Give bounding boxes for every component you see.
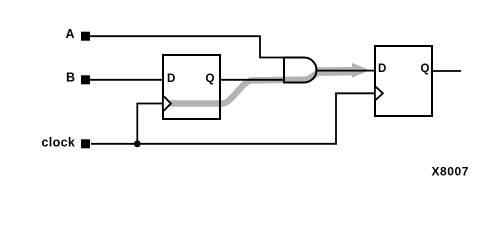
flip-flop U2 body fill <box>375 46 432 116</box>
svg-text:clock: clock <box>42 135 76 149</box>
terminal clock <box>81 139 90 148</box>
wire: AND gate output to U2 D input <box>316 70 376 72</box>
AND gate G1 body fill <box>284 58 317 83</box>
svg-text:A: A <box>66 27 75 41</box>
flip-flop U1 outline <box>163 55 220 119</box>
svg-text:Q: Q <box>206 73 215 85</box>
U2 clock pin triangle <box>376 87 383 100</box>
wire A: terminal to AND gate top input <box>89 36 284 57</box>
U1 clock pin triangle <box>164 96 171 110</box>
terminal A <box>81 32 90 41</box>
terminal B <box>81 75 90 84</box>
flip-flop U1 body fill <box>163 55 220 119</box>
AND gate G1 outline <box>284 58 317 83</box>
svg-text:D: D <box>167 73 175 85</box>
wire clock branch to U1 clock pin <box>137 104 163 144</box>
wire: U2 Q output <box>432 70 461 72</box>
gray block arrow to U2 D input <box>315 63 370 78</box>
svg-text:Q: Q <box>421 63 430 75</box>
junction dot on clock net <box>134 140 141 147</box>
highlighted timing path (gray) <box>168 72 319 103</box>
wire clock: main run <box>91 93 375 144</box>
svg-text:B: B <box>66 70 75 84</box>
wire: U1 Q output to AND gate lower input <box>220 79 284 81</box>
flip-flop U2 outline <box>375 46 432 116</box>
svg-text:X8007: X8007 <box>432 165 469 179</box>
svg-text:D: D <box>378 63 386 75</box>
wire B: terminal to U1 D input <box>90 79 163 81</box>
